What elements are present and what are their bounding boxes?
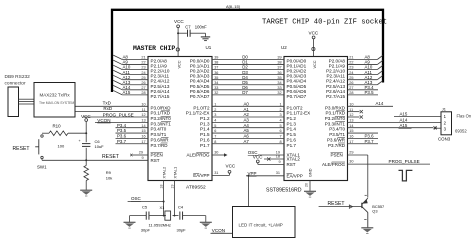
wire D5 net U1.P0.5 to U2.P0.5 bbox=[212, 84, 284, 86]
wire A8 to U1 P2.0 bbox=[122, 59, 148, 61]
svg-text:EA/VPP: EA/VPP bbox=[287, 173, 303, 178]
power flag circle above U1 bbox=[176, 48, 179, 51]
ground (U2 GND pin 20) bbox=[309, 181, 311, 192]
svg-text:RESET: RESET bbox=[328, 201, 345, 207]
svg-text:A3: A3 bbox=[244, 117, 250, 122]
wire XTAL2 down bbox=[163, 181, 165, 216]
svg-text:P1.4: P1.4 bbox=[287, 127, 297, 132]
svg-text:5: 5 bbox=[214, 124, 216, 128]
wire U2 pin14 bbox=[348, 127, 434, 129]
svg-text:25: 25 bbox=[349, 76, 353, 80]
svg-text:32: 32 bbox=[214, 91, 218, 95]
svg-text:3: 3 bbox=[279, 113, 281, 117]
ground (R9) bbox=[80, 189, 92, 191]
svg-text:D7: D7 bbox=[242, 90, 248, 95]
svg-text:27: 27 bbox=[141, 86, 145, 90]
svg-text:U1: U1 bbox=[206, 45, 212, 50]
wire TxD bbox=[75, 105, 148, 107]
bus A[8..15] bbox=[112, 10, 383, 92]
svg-text:MASTER CHIP: MASTER CHIP bbox=[133, 45, 175, 52]
svg-text:10k: 10k bbox=[106, 175, 112, 180]
wire A15 to U1 P2.7 bbox=[122, 94, 148, 96]
svg-text:P3.7: P3.7 bbox=[117, 139, 127, 144]
wire P3.6 (U2 pin16) bbox=[348, 137, 379, 139]
svg-text:38: 38 bbox=[277, 61, 281, 65]
svg-text:36: 36 bbox=[214, 71, 218, 75]
wire D4 net U1.P0.4 to U2.P0.4 bbox=[212, 79, 284, 81]
svg-text:2: 2 bbox=[214, 108, 216, 112]
svg-text:8: 8 bbox=[279, 140, 281, 144]
svg-text:RST: RST bbox=[151, 158, 160, 163]
svg-text:P2.7/A15: P2.7/A15 bbox=[326, 94, 345, 99]
svg-text:16: 16 bbox=[349, 135, 353, 139]
capacitor C5 30pF bbox=[150, 215, 164, 217]
svg-text:32: 32 bbox=[277, 91, 281, 95]
svg-text:A6: A6 bbox=[244, 134, 250, 139]
svg-text:10uF: 10uF bbox=[95, 144, 105, 149]
svg-text:30: 30 bbox=[349, 159, 353, 163]
LED circuit box bbox=[233, 207, 296, 238]
svg-text:21: 21 bbox=[141, 56, 145, 60]
svg-text:30pF: 30pF bbox=[177, 227, 187, 232]
svg-text:P3.1/TXD: P3.1/TXD bbox=[325, 111, 345, 116]
svg-text:GND: GND bbox=[309, 168, 313, 177]
svg-text:39: 39 bbox=[277, 56, 281, 60]
wire RxD bbox=[75, 111, 148, 113]
no-connect U2 pin11 bbox=[348, 111, 360, 113]
svg-text:37: 37 bbox=[214, 66, 218, 70]
op-amp U2 SST89E516RD target chip body bbox=[284, 57, 348, 181]
svg-text:DB9 RS232: DB9 RS232 bbox=[5, 74, 31, 80]
wire D2 net U1.P0.2 to U2.P0.2 bbox=[212, 69, 284, 71]
svg-text:P1.7: P1.7 bbox=[287, 143, 297, 148]
svg-text:35: 35 bbox=[277, 76, 281, 80]
svg-text:31: 31 bbox=[214, 171, 218, 175]
svg-text:P1.2: P1.2 bbox=[200, 116, 210, 121]
svg-text:P3.4: P3.4 bbox=[117, 123, 127, 128]
wire D6 net U1.P0.6 to U2.P0.6 bbox=[212, 89, 284, 91]
ground (Q3) bbox=[361, 227, 373, 229]
wire A0 net U1.P1.0 to U2.P1.0 bbox=[212, 105, 284, 107]
svg-text:C5: C5 bbox=[142, 205, 148, 210]
svg-text:R9: R9 bbox=[106, 170, 112, 175]
svg-text:RST: RST bbox=[287, 162, 296, 167]
svg-text:19: 19 bbox=[170, 185, 174, 189]
svg-text:A7: A7 bbox=[244, 139, 250, 144]
wire VCC to U1 pin40 bbox=[177, 28, 179, 57]
switch SW1 (RESET push button) bbox=[41, 135, 43, 137]
svg-text:CON3: CON3 bbox=[438, 137, 451, 142]
svg-text:LED IT circuit, +LAMP: LED IT circuit, +LAMP bbox=[239, 223, 283, 228]
svg-text:A2: A2 bbox=[244, 112, 250, 117]
svg-text:P3.5: P3.5 bbox=[365, 90, 375, 95]
transistor Q3 BC557 bbox=[361, 203, 363, 208]
svg-text:11: 11 bbox=[349, 108, 353, 112]
svg-text:PROG_PULSE: PROG_PULSE bbox=[389, 159, 420, 164]
svg-text:C4: C4 bbox=[178, 205, 184, 210]
svg-text:P3.6/WR: P3.6/WR bbox=[151, 137, 170, 142]
ground (C7) bbox=[201, 36, 210, 38]
svg-text:24: 24 bbox=[349, 71, 353, 75]
svg-text:P1.2: P1.2 bbox=[287, 116, 297, 121]
wire A7 net U1.P1.7 to U2.P1.7 bbox=[212, 143, 284, 145]
svg-text:33: 33 bbox=[277, 86, 281, 90]
svg-text:P1.4: P1.4 bbox=[200, 127, 210, 132]
svg-text:PROG_PULSE: PROG_PULSE bbox=[103, 112, 134, 117]
svg-text:VCON: VCON bbox=[212, 228, 225, 233]
svg-text:26: 26 bbox=[141, 81, 145, 85]
svg-text:34: 34 bbox=[214, 81, 218, 85]
svg-text:21: 21 bbox=[349, 56, 353, 60]
wire D0 net U1.P0.0 to U2.P0.0 bbox=[212, 59, 284, 61]
wire A1 net U1.P1.1 to U2.P1.1 bbox=[212, 111, 284, 113]
svg-text:29: 29 bbox=[349, 150, 353, 154]
wire A14 (U2 P3.0) bbox=[348, 105, 394, 107]
svg-text:38: 38 bbox=[214, 61, 218, 65]
svg-text:100: 100 bbox=[58, 144, 65, 149]
wire VCON bbox=[95, 121, 148, 123]
svg-text:VCC: VCC bbox=[253, 155, 263, 160]
svg-text:7: 7 bbox=[279, 135, 281, 139]
no-connect U2 pin12 bbox=[348, 116, 360, 118]
svg-text:2: 2 bbox=[279, 108, 281, 112]
svg-text:P3.3/INT1: P3.3/INT1 bbox=[325, 121, 346, 126]
wire PROG_PULSE bbox=[83, 116, 148, 118]
svg-text:31: 31 bbox=[276, 171, 280, 175]
wire D1 net U1.P0.1 to U2.P0.1 bbox=[212, 64, 284, 66]
svg-text:P3.2/INT0: P3.2/INT0 bbox=[151, 116, 172, 121]
svg-text:A4: A4 bbox=[244, 123, 250, 128]
svg-text:ALE/PROG: ALE/PROG bbox=[186, 153, 210, 158]
svg-text:30pF: 30pF bbox=[141, 227, 151, 232]
svg-text:12: 12 bbox=[141, 113, 145, 117]
svg-text:P2.7/A15: P2.7/A15 bbox=[151, 94, 170, 99]
svg-text:U2: U2 bbox=[281, 45, 287, 50]
svg-text:P3.7/RD: P3.7/RD bbox=[328, 143, 346, 148]
svg-text:7: 7 bbox=[214, 135, 216, 139]
svg-text:SST89E516RD: SST89E516RD bbox=[266, 187, 302, 193]
resistor R9 10k bbox=[85, 160, 87, 165]
svg-text:28: 28 bbox=[349, 91, 353, 95]
svg-text:A1: A1 bbox=[244, 107, 250, 112]
svg-text:P3.7/RD: P3.7/RD bbox=[151, 143, 169, 148]
svg-text:4: 4 bbox=[214, 118, 216, 122]
svg-text:69352: 69352 bbox=[455, 129, 467, 134]
wire VCC to U2 pin40 bbox=[313, 39, 315, 57]
svg-text:J1: J1 bbox=[442, 107, 446, 112]
svg-text:C7: C7 bbox=[185, 25, 191, 30]
wire VCC down bbox=[85, 121, 87, 133]
capacitor C6 10uF bbox=[85, 133, 87, 142]
wire ribbon DB9 to MAX232 bbox=[19, 98, 35, 100]
svg-text:P3.6: P3.6 bbox=[365, 134, 375, 139]
svg-text:A15: A15 bbox=[400, 111, 408, 116]
power flag circle above U2 bbox=[312, 47, 315, 50]
svg-text:Q3: Q3 bbox=[372, 208, 377, 213]
svg-text:VCC: VCC bbox=[178, 60, 182, 68]
svg-text:12: 12 bbox=[349, 113, 353, 117]
svg-text:P1.1/T2-EX: P1.1/T2-EX bbox=[186, 111, 210, 116]
svg-text:6: 6 bbox=[279, 129, 281, 133]
svg-text:A15: A15 bbox=[400, 123, 408, 128]
svg-text:P1.6: P1.6 bbox=[200, 137, 210, 142]
svg-text:36: 36 bbox=[277, 71, 281, 75]
svg-text:P1.0/T2: P1.0/T2 bbox=[287, 105, 304, 110]
svg-text:A0: A0 bbox=[244, 101, 250, 106]
svg-text:P3.7: P3.7 bbox=[365, 139, 375, 144]
op-amp U1 AT89S52 master chip body bbox=[148, 57, 212, 181]
wire P3.7 stub bbox=[116, 143, 149, 145]
wire A3 net U1.P1.3 to U2.P1.3 bbox=[212, 121, 284, 123]
svg-text:17: 17 bbox=[141, 140, 145, 144]
wire P3.6 stub bbox=[116, 137, 149, 139]
svg-text:4: 4 bbox=[279, 118, 281, 122]
svg-text:X1: X1 bbox=[160, 205, 165, 210]
svg-text:VCC: VCC bbox=[313, 60, 317, 68]
svg-text:P3.0/RXD: P3.0/RXD bbox=[151, 105, 172, 110]
svg-text:connector: connector bbox=[5, 80, 26, 86]
svg-text:10: 10 bbox=[141, 102, 145, 106]
wire P3.4 stub bbox=[116, 127, 149, 129]
svg-text:P3.1/TXD: P3.1/TXD bbox=[151, 111, 171, 116]
svg-text:Flas On: Flas On bbox=[457, 113, 472, 118]
ground (C4) bbox=[200, 221, 212, 223]
svg-text:20: 20 bbox=[305, 183, 309, 187]
svg-text:23: 23 bbox=[349, 66, 353, 70]
svg-text:R10: R10 bbox=[53, 124, 62, 129]
svg-text:VCC: VCC bbox=[309, 30, 319, 35]
svg-text:8: 8 bbox=[214, 140, 216, 144]
svg-text:VCC: VCC bbox=[226, 164, 236, 169]
svg-text:29: 29 bbox=[139, 150, 143, 154]
svg-text:P1.7: P1.7 bbox=[200, 143, 210, 148]
svg-text:22: 22 bbox=[141, 61, 145, 65]
wire A14 to U1 P2.6 bbox=[122, 89, 148, 91]
svg-text:11: 11 bbox=[142, 108, 146, 112]
svg-text:P3.6: P3.6 bbox=[117, 134, 127, 139]
svg-text:P0.7/AD7: P0.7/AD7 bbox=[287, 94, 307, 99]
svg-text:27: 27 bbox=[349, 86, 353, 90]
MAX232 box bbox=[34, 83, 75, 118]
wire U2 pin13 to J1 pin2 bbox=[348, 121, 442, 123]
svg-text:18: 18 bbox=[276, 154, 280, 158]
svg-text:ALE/PROG: ALE/PROG bbox=[322, 162, 346, 167]
svg-text:A14: A14 bbox=[376, 101, 384, 106]
svg-text:A15: A15 bbox=[123, 90, 131, 95]
svg-text:P3.2/INT0: P3.2/INT0 bbox=[325, 116, 346, 121]
svg-text:P3.4/T0: P3.4/T0 bbox=[329, 127, 345, 132]
svg-text:25: 25 bbox=[141, 76, 145, 80]
wire A6 net U1.P1.6 to U2.P1.6 bbox=[212, 137, 284, 139]
svg-text:P3.6/WR: P3.6/WR bbox=[327, 137, 346, 142]
svg-text:PSEN: PSEN bbox=[331, 153, 343, 158]
svg-text:SW1: SW1 bbox=[37, 165, 47, 170]
svg-text:100nF: 100nF bbox=[195, 25, 207, 30]
svg-text:P3.3/INT1: P3.3/INT1 bbox=[151, 121, 172, 126]
wire A4 net U1.P1.4 to U2.P1.4 bbox=[212, 127, 284, 129]
svg-text:RxD: RxD bbox=[103, 106, 112, 111]
svg-text:9: 9 bbox=[142, 156, 144, 160]
svg-text:1: 1 bbox=[214, 102, 216, 106]
svg-text:P3.4/T0: P3.4/T0 bbox=[151, 127, 167, 132]
svg-text:14: 14 bbox=[349, 124, 353, 128]
wire A13 to U1 P2.5 bbox=[122, 84, 148, 86]
svg-text:3: 3 bbox=[214, 113, 216, 117]
svg-text:P0.7/AD7: P0.7/AD7 bbox=[190, 94, 210, 99]
ground (C5) bbox=[124, 221, 136, 223]
svg-text:P1.1/T2-EX: P1.1/T2-EX bbox=[287, 111, 311, 116]
svg-text:P1.0/T2: P1.0/T2 bbox=[193, 105, 210, 110]
svg-text:The MAX-ON SYSTEM: The MAX-ON SYSTEM bbox=[39, 101, 74, 105]
svg-text:9: 9 bbox=[279, 160, 281, 164]
svg-text:10: 10 bbox=[349, 102, 353, 106]
svg-text:RESET: RESET bbox=[13, 146, 30, 152]
svg-text:37: 37 bbox=[277, 66, 281, 70]
wire RESET row bbox=[41, 159, 43, 161]
svg-text:P1.3: P1.3 bbox=[200, 121, 210, 126]
svg-text:P1.5: P1.5 bbox=[200, 132, 210, 137]
wire U2 pin15 stub bbox=[348, 132, 379, 134]
svg-text:XTAL2: XTAL2 bbox=[162, 167, 167, 179]
svg-text:34: 34 bbox=[277, 81, 281, 85]
svg-text:XTAL2: XTAL2 bbox=[287, 157, 301, 162]
wire P3.5 stub bbox=[116, 132, 149, 134]
svg-text:P3.0/RXD: P3.0/RXD bbox=[325, 105, 346, 110]
svg-text:EA/VPP: EA/VPP bbox=[193, 173, 209, 178]
wire D3 net U1.P0.3 to U2.P0.3 bbox=[212, 74, 284, 76]
svg-text:P1.5: P1.5 bbox=[287, 132, 297, 137]
svg-text:P1.3: P1.3 bbox=[287, 121, 297, 126]
svg-text:16: 16 bbox=[141, 135, 145, 139]
svg-text:OSC: OSC bbox=[131, 196, 142, 201]
svg-text:15: 15 bbox=[349, 129, 353, 133]
svg-text:11.0592MHz: 11.0592MHz bbox=[149, 223, 171, 228]
svg-text:A[8..15]: A[8..15] bbox=[226, 4, 240, 9]
svg-text:22: 22 bbox=[349, 61, 353, 65]
svg-text:P3.5: P3.5 bbox=[117, 128, 127, 133]
svg-text:17: 17 bbox=[349, 140, 353, 144]
svg-text:RESET: RESET bbox=[102, 154, 119, 160]
wire D7 net U1.P0.7 to U2.P0.7 bbox=[212, 94, 284, 96]
wire A9 to U1 P2.1 bbox=[122, 64, 148, 66]
svg-text:13: 13 bbox=[141, 118, 145, 122]
svg-text:MAX232 Tx/Rx: MAX232 Tx/Rx bbox=[40, 93, 71, 98]
wire VPP down to LED circuit box bbox=[247, 176, 249, 207]
wire A11 to U1 P2.3 bbox=[122, 74, 148, 76]
svg-text:+: + bbox=[79, 139, 81, 143]
svg-text:A14: A14 bbox=[400, 117, 408, 122]
svg-text:P3.5/T1: P3.5/T1 bbox=[151, 132, 167, 137]
svg-text:18: 18 bbox=[160, 185, 164, 189]
svg-text:VCC: VCC bbox=[174, 19, 184, 24]
pulse waveform glyph bbox=[399, 170, 413, 181]
wire A2 net U1.P1.2 to U2.P1.2 bbox=[212, 116, 284, 118]
svg-text:P3.5/T1: P3.5/T1 bbox=[329, 132, 345, 137]
svg-text:XTAL1: XTAL1 bbox=[172, 167, 177, 179]
capacitor C4 30pF bbox=[175, 215, 179, 217]
wire P3.7 (U2 pin17) bbox=[348, 143, 379, 145]
svg-text:13: 13 bbox=[349, 118, 353, 122]
capacitor C7 100nF bbox=[178, 32, 187, 34]
resistor R10 100 bbox=[42, 132, 49, 134]
svg-text:TxD: TxD bbox=[103, 101, 112, 106]
svg-text:VCON: VCON bbox=[97, 118, 110, 123]
svg-text:1: 1 bbox=[279, 102, 281, 106]
crystal X1 11.0592MHz bbox=[164, 215, 166, 217]
wire RESET to U1 RST bbox=[42, 159, 148, 161]
svg-text:33: 33 bbox=[214, 86, 218, 90]
svg-text:AT89S52: AT89S52 bbox=[186, 184, 206, 190]
svg-text:14: 14 bbox=[141, 124, 145, 128]
svg-text:P1.6: P1.6 bbox=[287, 137, 297, 142]
wire A10 to U1 P2.2 bbox=[122, 69, 148, 71]
svg-text:TARGET CHIP 40-pin ZIF socket: TARGET CHIP 40-pin ZIF socket bbox=[262, 19, 387, 27]
svg-text:35: 35 bbox=[214, 76, 218, 80]
svg-text:30: 30 bbox=[214, 150, 218, 154]
wire A12 to U1 P2.4 bbox=[122, 79, 148, 81]
svg-text:15: 15 bbox=[141, 129, 145, 133]
svg-text:A5: A5 bbox=[244, 128, 250, 133]
svg-text:26: 26 bbox=[349, 81, 353, 85]
wire XTAL1 down bbox=[174, 181, 176, 216]
svg-text:23: 23 bbox=[141, 66, 145, 70]
svg-text:5: 5 bbox=[279, 124, 281, 128]
svg-text:6: 6 bbox=[214, 129, 216, 133]
wire A5 net U1.P1.5 to U2.P1.5 bbox=[212, 132, 284, 134]
svg-text:24: 24 bbox=[141, 71, 145, 75]
svg-text:39: 39 bbox=[214, 56, 218, 60]
svg-text:28: 28 bbox=[141, 91, 145, 95]
wire A15 to J1 pin1 bbox=[394, 116, 441, 118]
svg-text:PSEN: PSEN bbox=[151, 153, 163, 158]
